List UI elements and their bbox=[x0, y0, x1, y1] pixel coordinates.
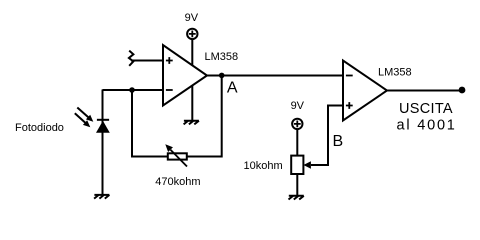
svg-text:Fotodiodo: Fotodiodo bbox=[15, 122, 64, 134]
svg-text:LM358: LM358 bbox=[378, 67, 412, 79]
svg-text:10kohm: 10kohm bbox=[244, 160, 283, 172]
svg-text:9V: 9V bbox=[291, 100, 305, 112]
svg-text:A: A bbox=[227, 79, 238, 96]
svg-text:al 4001: al 4001 bbox=[397, 117, 457, 133]
svg-text:LM358: LM358 bbox=[205, 51, 239, 63]
svg-text:9V: 9V bbox=[185, 12, 199, 24]
svg-text:470kohm: 470kohm bbox=[155, 176, 200, 188]
svg-text:USCITA: USCITA bbox=[399, 101, 453, 117]
svg-text:B: B bbox=[333, 133, 344, 150]
